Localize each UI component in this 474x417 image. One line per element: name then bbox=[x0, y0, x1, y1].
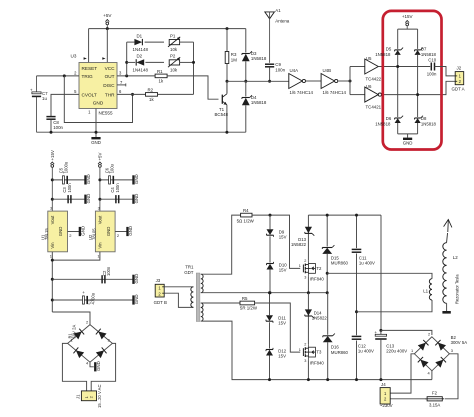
svg-text:1N5818: 1N5818 bbox=[421, 122, 437, 127]
wire HV rail right bbox=[380, 215, 382, 330]
zener D10 15V bbox=[269, 236, 271, 262]
junction C3 tap bbox=[51, 198, 54, 201]
connector J3 GDT B bbox=[155, 284, 164, 297]
svg-text:3: 3 bbox=[451, 348, 453, 353]
wire VCC pin to +5V rail bbox=[106, 29, 108, 63]
svg-text:CVOLT: CVOLT bbox=[82, 93, 97, 98]
antenna arrow above L2 bbox=[446, 233, 449, 243]
svg-text:GND: GND bbox=[134, 274, 139, 284]
wire RESET pin to +5V rail bbox=[88, 29, 90, 63]
svg-text:1u 400V: 1u 400V bbox=[358, 349, 374, 354]
ground for C1 bbox=[132, 295, 134, 304]
svg-text:1N5818: 1N5818 bbox=[421, 52, 437, 57]
svg-text:1k: 1k bbox=[159, 79, 164, 84]
svg-text:1u 400V: 1u 400V bbox=[359, 261, 375, 266]
ground for C5 bbox=[84, 175, 86, 184]
svg-text:2: 2 bbox=[428, 331, 430, 336]
svg-text:J4: J4 bbox=[381, 382, 386, 387]
svg-text:BC548: BC548 bbox=[215, 112, 229, 117]
svg-text:R5: R5 bbox=[242, 296, 248, 301]
svg-text:+: + bbox=[30, 88, 33, 93]
wire CVOLT pin 5 bbox=[51, 94, 79, 116]
wire ground rail under 555 bbox=[37, 131, 246, 133]
svg-text:GDT: GDT bbox=[184, 270, 194, 275]
svg-text:2: 2 bbox=[304, 259, 306, 263]
svg-text:1k: 1k bbox=[149, 97, 154, 102]
pin arrow RESET bbox=[84, 57, 87, 60]
svg-text:C10: C10 bbox=[428, 58, 436, 63]
diode D7 1N5818 bbox=[415, 50, 421, 55]
svg-text:J3: J3 bbox=[156, 278, 161, 283]
op-amp U4B 74HC14 inverter bbox=[321, 74, 335, 89]
junction T1 emitter ground bbox=[225, 131, 228, 134]
ground for C4 bbox=[132, 195, 134, 204]
wire B1 AC left to J1 bbox=[62, 343, 86, 391]
wire U4B out to drivers bbox=[338, 80, 350, 82]
wire B2 AC2 to fuse bbox=[445, 354, 458, 399]
junction T3 source bottom rail bbox=[307, 378, 310, 381]
junction zener bottom upper bbox=[269, 291, 272, 294]
diode D6 1N5818 bbox=[395, 118, 401, 123]
svg-text:P1: P1 bbox=[170, 33, 176, 38]
svg-text:1N5822: 1N5822 bbox=[312, 316, 328, 321]
wire OUT pin 3 bbox=[117, 75, 155, 77]
potentiometer P2 10k bbox=[169, 60, 179, 65]
wire T2 drain bbox=[307, 215, 309, 260]
wire J3 pin2 to primary bbox=[164, 293, 193, 307]
svg-text:OUT: OUT bbox=[105, 74, 115, 79]
wire U4A out to U4B in bbox=[306, 80, 321, 82]
junction D16 bottom rail bbox=[326, 378, 329, 381]
bridge rectifier B2 300V 5A bbox=[414, 337, 449, 371]
wire +15V tee bbox=[398, 28, 418, 30]
transistor T3 IRF840 bbox=[302, 348, 304, 356]
svg-text:3: 3 bbox=[304, 359, 306, 363]
svg-text:D7: D7 bbox=[421, 46, 427, 51]
junction T2 source mid rail bbox=[307, 291, 310, 294]
svg-text:1: 1 bbox=[411, 348, 413, 353]
svg-text:T3: T3 bbox=[316, 350, 322, 355]
svg-text:+5V: +5V bbox=[103, 13, 112, 18]
svg-text:1/6 74HC14: 1/6 74HC14 bbox=[323, 90, 347, 95]
svg-text:GND: GND bbox=[58, 227, 63, 237]
svg-text:+: + bbox=[82, 290, 85, 295]
wire U6 output line bbox=[382, 81, 455, 94]
svg-text:GND: GND bbox=[86, 174, 91, 184]
svg-text:NE555: NE555 bbox=[99, 111, 113, 116]
pin arrow VCC bbox=[102, 57, 105, 60]
svg-text:D5: D5 bbox=[386, 46, 392, 51]
svg-text:1: 1 bbox=[299, 264, 301, 268]
svg-text:5R 1/2W: 5R 1/2W bbox=[240, 306, 258, 311]
op-amp U4A 74HC14 inverter bbox=[289, 74, 303, 89]
junction driver input split bbox=[349, 80, 352, 83]
ground GND in red box bbox=[403, 138, 412, 140]
svg-text:5Ω 1/2W: 5Ω 1/2W bbox=[237, 218, 255, 223]
junction C8 ground bbox=[50, 131, 53, 134]
svg-text:GND: GND bbox=[86, 194, 91, 204]
transformer TR1 secondary lower bbox=[201, 303, 203, 321]
svg-text:GDT B: GDT B bbox=[154, 300, 167, 305]
ground GND under 555 bbox=[91, 137, 100, 139]
op-amp U3 NE555 timer body bbox=[79, 63, 117, 109]
svg-text:GND: GND bbox=[80, 226, 85, 236]
wire C13 tap to B2 plus bbox=[381, 330, 432, 335]
svg-text:3: 3 bbox=[304, 275, 306, 279]
svg-text:2: 2 bbox=[304, 343, 306, 347]
svg-text:U4B: U4B bbox=[323, 68, 332, 73]
svg-text:GND: GND bbox=[134, 174, 139, 184]
connector J4 230V bbox=[380, 388, 390, 404]
wire left clamp rail upper bbox=[397, 29, 399, 49]
resistor R5 5R bbox=[240, 301, 255, 305]
svg-text:1N5818: 1N5818 bbox=[375, 122, 391, 127]
diode D2 1N4148 bbox=[127, 61, 136, 63]
svg-text:1000u: 1000u bbox=[64, 161, 69, 173]
svg-text:Vout: Vout bbox=[50, 215, 55, 224]
svg-text:TR1: TR1 bbox=[185, 265, 194, 270]
wire U1 Vin down bbox=[51, 252, 53, 312]
junction C2 tap bbox=[51, 278, 54, 281]
resistor R2 bbox=[146, 93, 158, 97]
wire B2 AC1 to J4 pin1 bbox=[390, 354, 414, 393]
junction antenna node bbox=[268, 80, 271, 83]
svg-text:+: + bbox=[374, 330, 377, 335]
junction +5V at arrow bbox=[106, 27, 109, 30]
svg-text:15V: 15V bbox=[278, 321, 286, 326]
junction D15 top rail bbox=[326, 214, 329, 217]
svg-text:GND: GND bbox=[93, 101, 104, 106]
svg-text:10k: 10k bbox=[170, 67, 178, 72]
capacitor C9 100n bbox=[265, 63, 274, 65]
junction TRIG node bbox=[63, 74, 66, 77]
regulator U2 78L05 bbox=[95, 211, 115, 252]
wire D-loop right rail bbox=[193, 42, 195, 94]
capacitor C4 100n bbox=[100, 198, 134, 200]
svg-text:+5V: +5V bbox=[97, 152, 102, 160]
junction C6 tap bbox=[98, 178, 101, 181]
inductor L1 primary coil bbox=[429, 279, 432, 300]
wire R5 to T3 gate bbox=[255, 303, 301, 352]
svg-text:GND: GND bbox=[134, 194, 139, 204]
svg-text:15V: 15V bbox=[279, 268, 287, 273]
junction D7-D8 node to U6 line bbox=[416, 93, 419, 96]
svg-text:300V 5A: 300V 5A bbox=[451, 340, 468, 345]
wire split to U5 bbox=[349, 67, 351, 95]
junction C13 tap bbox=[379, 329, 382, 332]
svg-text:L2: L2 bbox=[453, 255, 458, 260]
svg-text:IRF840: IRF840 bbox=[310, 360, 325, 365]
wire mid tap to L1 bbox=[327, 273, 432, 278]
svg-text:A1: A1 bbox=[275, 8, 281, 13]
wire U2 GND pin bbox=[115, 231, 127, 233]
junction C12 bottom rail bbox=[355, 378, 358, 381]
svg-text:220u 400V: 220u 400V bbox=[386, 349, 407, 354]
capacitor C12 1u 400V bbox=[352, 335, 362, 337]
svg-text:F2: F2 bbox=[432, 390, 438, 395]
junction C12 divider mid bbox=[355, 310, 358, 313]
svg-text:1M: 1M bbox=[231, 57, 237, 62]
ground for U1 bbox=[79, 227, 81, 236]
svg-text:VCC: VCC bbox=[105, 66, 116, 71]
diode D16 MUR860 bbox=[327, 293, 329, 335]
svg-text:1: 1 bbox=[299, 348, 301, 352]
svg-text:100n: 100n bbox=[275, 67, 285, 72]
wire top rail T2 drain to corner bbox=[308, 214, 381, 216]
resistor R1 bbox=[155, 74, 167, 78]
svg-text:78L15: 78L15 bbox=[44, 228, 49, 240]
svg-text:TRIG: TRIG bbox=[82, 74, 94, 79]
transformer TR1 secondary upper bbox=[201, 274, 203, 293]
svg-text:P2: P2 bbox=[170, 54, 176, 59]
highlight red box bbox=[383, 11, 442, 150]
capacitor C8 bbox=[46, 116, 55, 118]
wire split to U6 bbox=[350, 94, 365, 96]
capacitor C1 4700u bbox=[52, 299, 133, 301]
svg-text:U6: U6 bbox=[366, 84, 372, 89]
svg-text:~230V: ~230V bbox=[380, 403, 393, 408]
transistor T2 IRF840 bbox=[302, 265, 304, 273]
svg-text:Vout: Vout bbox=[97, 215, 102, 224]
svg-text:15V: 15V bbox=[278, 354, 286, 359]
svg-text:3,15A: 3,15A bbox=[429, 402, 440, 407]
diode D8 1N5818 bbox=[415, 118, 421, 123]
svg-text:D8: D8 bbox=[421, 116, 427, 121]
svg-text:100n: 100n bbox=[106, 266, 111, 276]
svg-text:1N5818: 1N5818 bbox=[251, 100, 267, 105]
wire U2 Vin join bbox=[52, 252, 100, 260]
svg-text:1N4148: 1N4148 bbox=[133, 47, 149, 52]
svg-text:Antena: Antena bbox=[275, 19, 289, 24]
svg-text:D1: D1 bbox=[137, 33, 143, 38]
junction C1 tap bbox=[51, 299, 54, 302]
wire R1 to T1 base bbox=[167, 76, 218, 99]
ground B1 bbox=[94, 362, 96, 371]
capacitor C10 100n bbox=[430, 63, 432, 71]
wire mid rail bbox=[201, 292, 327, 294]
junction 555 ground bbox=[95, 131, 98, 134]
svg-text:1N5818: 1N5818 bbox=[375, 52, 391, 57]
fuse F2 3.15A bbox=[427, 397, 442, 401]
ground for C3 bbox=[84, 195, 86, 204]
bridge rectifier B1 50V 2A bbox=[68, 325, 113, 363]
svg-text:GDT A: GDT A bbox=[452, 87, 465, 92]
svg-text:J2: J2 bbox=[457, 66, 462, 71]
svg-text:TC4422: TC4422 bbox=[366, 77, 382, 82]
ground bar L2 bottom bbox=[446, 303, 448, 311]
zener D12 15V bbox=[269, 322, 271, 348]
wire J3 pin1 to primary bbox=[164, 286, 193, 288]
svg-text:100u: 100u bbox=[110, 163, 115, 173]
svg-text:100n: 100n bbox=[115, 183, 120, 193]
svg-text:R4: R4 bbox=[243, 208, 249, 213]
junction D11 top bbox=[268, 291, 271, 294]
wire B1 AC right to J1 bbox=[91, 343, 115, 391]
junction C4 tap bbox=[98, 198, 101, 201]
wire TRIG pin 2 bbox=[37, 75, 80, 77]
wire clamp ground tee bbox=[398, 133, 418, 135]
svg-text:4700u: 4700u bbox=[90, 292, 95, 304]
junction D12 bottom rail bbox=[268, 378, 271, 381]
svg-text:GND: GND bbox=[134, 294, 139, 304]
svg-text:1N4148: 1N4148 bbox=[133, 67, 149, 72]
wire +5V rail bbox=[89, 28, 246, 30]
diode D13 1N5822 in T2 drain bbox=[305, 227, 312, 233]
wire T3 drain bbox=[307, 293, 309, 344]
svg-text:RESET: RESET bbox=[82, 66, 98, 71]
svg-text:1N5818: 1N5818 bbox=[251, 56, 267, 61]
antenna A1 bbox=[265, 12, 275, 19]
ground for U2 bbox=[126, 227, 128, 236]
svg-text:MUR860: MUR860 bbox=[331, 350, 349, 355]
junction C13 bottom rail bbox=[379, 378, 382, 381]
wire DISC pin 7 stub bbox=[117, 84, 126, 86]
svg-text:GND: GND bbox=[91, 140, 101, 145]
wire antenna node line bbox=[227, 80, 289, 82]
svg-text:100n: 100n bbox=[427, 71, 437, 76]
transistor T1 BC548 bbox=[221, 95, 223, 104]
svg-text:10k: 10k bbox=[170, 47, 178, 52]
svg-text:GND: GND bbox=[128, 226, 133, 236]
svg-text:IRF840: IRF840 bbox=[310, 277, 325, 282]
capacitor C13 220u 400V bbox=[380, 330, 382, 335]
ground for C2 bbox=[132, 275, 134, 284]
svg-text:Vin: Vin bbox=[97, 242, 102, 249]
diode D14 1N5822 in T3 drain bbox=[305, 309, 312, 315]
svg-text:100n: 100n bbox=[67, 183, 72, 193]
junction regulators input bbox=[51, 259, 54, 262]
transformer TR1 core bbox=[196, 273, 200, 322]
zener D11 15V bbox=[269, 293, 271, 316]
wire R4 to T2 gate bbox=[252, 215, 300, 268]
wire U5 output line bbox=[378, 66, 430, 68]
capacitor C2 100n bbox=[52, 278, 133, 280]
junction zener tap upper bbox=[269, 214, 272, 217]
svg-text:78L05: 78L05 bbox=[92, 228, 97, 240]
capacitor C11 1u 400V bbox=[356, 215, 358, 248]
transformer TR1 GDT primary bbox=[191, 287, 194, 308]
svg-text:U3: U3 bbox=[71, 54, 77, 59]
svg-text:GND: GND bbox=[96, 361, 101, 371]
capacitor C7 bbox=[36, 76, 38, 94]
wire T2 source bbox=[307, 276, 309, 292]
svg-text:1N5822: 1N5822 bbox=[291, 242, 307, 247]
svg-text:T2: T2 bbox=[316, 266, 322, 271]
junction C11 top rail bbox=[355, 214, 358, 217]
junction D-loop left on OUT bbox=[125, 74, 128, 77]
svg-text:50V 2A: 50V 2A bbox=[72, 325, 77, 339]
junction D15 bottom bbox=[326, 291, 329, 294]
capacitor C3 100n bbox=[52, 198, 85, 200]
diode D4 1N5818 bbox=[245, 81, 247, 96]
junction P2 right bbox=[192, 61, 195, 64]
regulator U1 78L15 bbox=[48, 211, 68, 252]
wire T3 source bbox=[307, 360, 309, 380]
svg-text:R2: R2 bbox=[148, 87, 154, 92]
zener D9 15V bbox=[269, 215, 271, 229]
svg-text:15V: 15V bbox=[279, 235, 287, 240]
svg-text:U4A: U4A bbox=[290, 68, 299, 73]
svg-text:THR: THR bbox=[105, 93, 115, 98]
svg-text:TC4421: TC4421 bbox=[366, 105, 382, 110]
wire B1 minus to ground bbox=[90, 362, 94, 367]
wire secondary upper top to R4 bbox=[201, 215, 241, 274]
junction D2 left bbox=[125, 61, 128, 64]
svg-text:+15V: +15V bbox=[402, 14, 413, 19]
wire TRIG to THR wrap-around bbox=[64, 76, 132, 123]
diode D3 1N5818 bbox=[245, 29, 247, 53]
svg-text:GND: GND bbox=[403, 140, 413, 145]
junction THR node bbox=[131, 93, 134, 96]
svg-text:L1: L1 bbox=[423, 288, 428, 293]
diode D5 1N5818 bbox=[395, 50, 401, 55]
junction R3 top bbox=[226, 27, 229, 30]
svg-text:1/6 74HC14: 1/6 74HC14 bbox=[290, 90, 314, 95]
resistor R4 5ohm bbox=[241, 213, 252, 217]
svg-text:D6: D6 bbox=[386, 116, 392, 121]
wire L1 return to divider bbox=[357, 300, 433, 312]
svg-text:R1: R1 bbox=[157, 69, 163, 74]
junction D15 mid tap bbox=[326, 272, 329, 275]
capacitor C6 100u bbox=[100, 179, 134, 181]
svg-text:Vin: Vin bbox=[50, 242, 55, 249]
svg-text:U5: U5 bbox=[366, 56, 372, 61]
wire supply to bridge bbox=[52, 312, 90, 325]
svg-text:+15V: +15V bbox=[50, 150, 55, 160]
wire right clamp rail upper bbox=[417, 29, 419, 49]
wire R2 to right rail bbox=[158, 93, 194, 95]
wire secondary lower top to R5 bbox=[201, 302, 240, 304]
connector J1 15..20V AC bbox=[81, 391, 96, 401]
inductor L2 resonator coil bbox=[443, 243, 447, 304]
svg-text:DISC: DISC bbox=[103, 83, 115, 88]
junction R3 bottom antenna node bbox=[226, 80, 229, 83]
potentiometer P1 10k bbox=[169, 40, 179, 45]
capacitor C5 1000u bbox=[52, 179, 85, 181]
svg-text:MUR860: MUR860 bbox=[331, 261, 349, 266]
junction D3 anode node bbox=[244, 80, 247, 83]
diode D1 1N4148 bbox=[127, 41, 135, 43]
svg-text:D2: D2 bbox=[137, 54, 143, 59]
svg-text:J1: J1 bbox=[76, 394, 81, 399]
wire GND pin 1 of 555 bbox=[95, 109, 97, 138]
svg-text:Rezonator Tesla: Rezonator Tesla bbox=[454, 274, 459, 304]
junction D5-D6 node to U5 line bbox=[396, 65, 399, 68]
op-amp U6 TC4421 driver bbox=[365, 87, 379, 102]
ground for C6 bbox=[132, 175, 134, 184]
wire C10 to J2 pin1 bbox=[435, 67, 456, 76]
wire U1 GND pin bbox=[68, 231, 80, 233]
wire B2 minus to bottom rail bbox=[431, 371, 433, 380]
svg-text:GND: GND bbox=[106, 227, 111, 237]
connector J2 GDT A bbox=[455, 72, 464, 85]
resistor R3 1M bbox=[226, 29, 228, 52]
svg-text:15...20 V AC: 15...20 V AC bbox=[97, 384, 102, 408]
op-amp U5 TC4422 driver bbox=[365, 59, 379, 74]
diode D15 MUR860 bbox=[326, 215, 328, 246]
wire fuse to J4 pin2 bbox=[390, 398, 427, 400]
junction C5 tap bbox=[51, 178, 54, 181]
wire secondary lower bottom rail bbox=[201, 321, 432, 380]
wire THR pin 6 bbox=[117, 93, 146, 95]
svg-text:100n: 100n bbox=[53, 125, 63, 130]
svg-text:1u: 1u bbox=[42, 96, 47, 101]
wire D-loop left rail bbox=[126, 42, 128, 76]
